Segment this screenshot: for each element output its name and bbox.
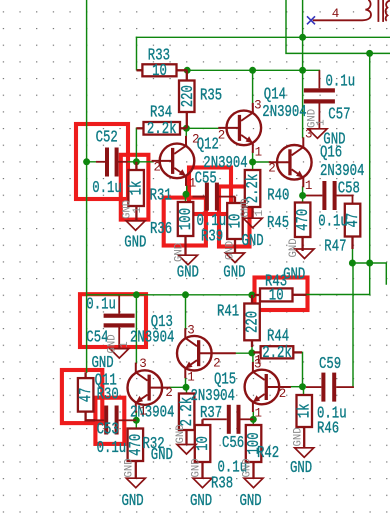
svg-text:470: 470	[294, 209, 313, 231]
resistor R43 (10, horizontal)	[254, 288, 307, 301]
wire R34 to Q14 base	[186, 127, 218, 129]
ground R39	[226, 253, 245, 263]
svg-text:470: 470	[127, 434, 146, 456]
svg-text:GND: GND	[323, 130, 345, 149]
svg-text:GND: GND	[122, 492, 144, 511]
svg-text:R38: R38	[211, 475, 233, 494]
svg-text:R30: R30	[97, 386, 119, 405]
resistor R41 (220, vertical)	[244, 295, 259, 347]
svg-text:C58: C58	[338, 180, 360, 199]
svg-text:2: 2	[268, 162, 276, 176]
junction R47 bottom	[349, 260, 356, 267]
ground C57	[308, 129, 327, 139]
junction Q14 collector	[249, 67, 256, 74]
capacitor C52	[96, 148, 128, 177]
svg-text:0.1u: 0.1u	[326, 73, 356, 92]
svg-text:GND: GND	[240, 492, 262, 511]
svg-text:C59: C59	[319, 355, 341, 374]
svg-text:220: 220	[179, 85, 198, 107]
svg-text:1k: 1k	[296, 404, 315, 419]
svg-text:C53: C53	[97, 421, 119, 440]
capacitor C53	[93, 406, 136, 435]
highlight box around R31	[121, 155, 149, 220]
capacitor C57	[304, 70, 335, 129]
ground R31	[126, 221, 145, 231]
svg-text:100: 100	[245, 432, 264, 454]
svg-text:220: 220	[244, 311, 263, 333]
no-connect flag on pin 4	[307, 16, 315, 24]
capacitor C58	[306, 181, 353, 210]
svg-text:2: 2	[165, 386, 173, 400]
svg-text:GND: GND	[225, 240, 237, 260]
svg-text:2: 2	[192, 133, 200, 147]
wire C52 to node	[118, 161, 153, 163]
svg-text:1: 1	[255, 406, 263, 420]
svg-text:GND: GND	[288, 238, 300, 258]
junction top bus	[299, 34, 306, 41]
svg-text:0.1u: 0.1u	[97, 439, 127, 458]
transistor Q11 (mirrored)	[128, 363, 171, 413]
svg-text:GND: GND	[174, 242, 186, 262]
capacitor C56	[203, 405, 254, 434]
svg-text:1: 1	[132, 207, 144, 214]
resistor R44 (2.2k, horizontal)	[254, 346, 303, 358]
svg-text:1: 1	[189, 177, 197, 191]
wire node to Q11 collector	[135, 295, 137, 363]
svg-text:2: 2	[218, 129, 226, 143]
wire Q11 base	[170, 386, 187, 388]
highlight box around R30	[62, 370, 102, 423]
svg-text:2N3904: 2N3904	[320, 162, 364, 181]
junction Q16 emitter	[299, 192, 306, 199]
wire from top at x=302.6	[302, 0, 304, 138]
junction Q13 collector	[182, 291, 189, 298]
capacitor C59	[306, 373, 354, 402]
svg-text:R45: R45	[267, 214, 289, 233]
ground R32	[126, 478, 145, 488]
svg-text:GND: GND	[191, 458, 203, 478]
resistor R34 (2.2k, horizontal)	[136, 122, 186, 135]
resistor R32 (470, vertical)	[128, 429, 144, 479]
svg-text:10: 10	[152, 62, 167, 81]
wire node to R34	[135, 128, 137, 162]
wire Q12 collector link	[185, 128, 187, 137]
resistor R30 (47, vertical)	[78, 372, 95, 420]
wire collector bus y=70.3	[187, 69, 319, 71]
svg-text:C57: C57	[328, 106, 350, 125]
wire y=263 right	[352, 263, 386, 284]
wire Q14 collector	[252, 70, 254, 106]
capacitor C55	[193, 183, 236, 211]
resistor R38 (10, vertical)	[195, 419, 211, 478]
resistor R36 (100, vertical)	[178, 202, 194, 255]
svg-text:GND: GND	[293, 427, 305, 447]
highlight box around R43	[255, 278, 308, 311]
wire to R43 right	[307, 294, 370, 296]
resistor R39 (10, vertical)	[227, 197, 243, 253]
svg-text:1: 1	[139, 405, 147, 419]
svg-text:2N3904: 2N3904	[130, 329, 174, 348]
svg-text:10: 10	[269, 286, 284, 305]
junction Q15 emitter	[250, 416, 257, 423]
wire Q11 emitter	[135, 412, 137, 429]
svg-text:1: 1	[255, 145, 263, 159]
transistor Q14	[218, 103, 261, 153]
svg-text:2N3904: 2N3904	[130, 404, 174, 423]
wire Q12 emitter node	[186, 186, 188, 195]
svg-text:47: 47	[77, 388, 96, 403]
svg-text:R47: R47	[324, 238, 346, 257]
svg-text:3: 3	[254, 99, 262, 113]
ground C54	[110, 349, 129, 359]
junction C54 top node	[133, 291, 140, 298]
pin 4 of transformer	[313, 19, 362, 21]
svg-text:2.2k: 2.2k	[262, 344, 292, 363]
junction C57 tap	[299, 67, 306, 74]
wire R33 feedback loop	[137, 37, 144, 70]
transistor Q12	[152, 136, 195, 186]
svg-text:R39: R39	[201, 228, 223, 247]
svg-text:C56: C56	[222, 434, 244, 453]
wire from top at x=286	[286, 0, 390, 53]
svg-text:R40: R40	[267, 187, 289, 206]
wire top bus y=37	[137, 36, 390, 38]
svg-text:4: 4	[332, 7, 340, 21]
svg-text:C52: C52	[96, 129, 118, 148]
wire C59 right riser	[352, 263, 354, 387]
svg-text:3: 3	[139, 357, 147, 371]
svg-text:GND: GND	[151, 446, 173, 465]
svg-text:1: 1	[254, 354, 262, 368]
svg-text:1: 1	[119, 341, 131, 348]
resistor R35 (220, vertical)	[179, 70, 195, 128]
junction Q13 emitter	[183, 384, 190, 391]
svg-text:C55: C55	[195, 170, 217, 189]
svg-text:3: 3	[305, 128, 313, 142]
highlight box around R39	[219, 187, 250, 247]
wire R44 right riser	[295, 352, 303, 386]
svg-text:Q14: Q14	[264, 86, 286, 105]
svg-text:R35: R35	[200, 87, 222, 106]
junction C52 left	[83, 158, 90, 165]
svg-text:GND: GND	[223, 264, 245, 283]
wire input rail left	[86, 0, 88, 372]
svg-text:GND: GND	[124, 458, 136, 478]
svg-text:2: 2	[279, 387, 287, 401]
junction R41 top	[248, 292, 255, 299]
highlight box around C55	[189, 168, 231, 215]
ground R36	[179, 255, 198, 265]
wire Q13 emitter node	[185, 378, 187, 387]
svg-text:2: 2	[213, 357, 221, 371]
resistor R47 (47, vertical)	[345, 204, 361, 249]
highlight box around C53	[95, 398, 124, 444]
highlight box around C54	[80, 294, 146, 347]
svg-text:1: 1	[254, 210, 266, 217]
wire R41 bottom	[251, 346, 253, 353]
junction right rail top	[366, 50, 373, 57]
highlight box around C52	[76, 124, 128, 199]
svg-text:R37: R37	[200, 404, 222, 423]
ground R38	[193, 478, 212, 488]
wire Q15 emitter	[252, 412, 254, 426]
junction Q12 emitter	[183, 191, 190, 198]
resistor R42 (100, vertical)	[246, 425, 261, 478]
svg-text:R36: R36	[150, 220, 172, 239]
svg-text:47: 47	[344, 213, 363, 228]
junction R41 bottom	[248, 349, 255, 356]
svg-text:1k: 1k	[128, 181, 147, 196]
ground R46	[295, 448, 314, 458]
wire R36 top	[185, 195, 187, 203]
junction R33 right	[184, 67, 191, 74]
svg-text:GND: GND	[240, 198, 252, 218]
resistor 2.2k bottom leg (vertical)	[179, 394, 195, 445]
wire Q15 collector	[252, 353, 254, 364]
svg-text:R31: R31	[150, 187, 172, 206]
svg-text:GND: GND	[290, 459, 312, 478]
ground 2.2k bottom leg	[177, 445, 196, 455]
svg-text:0.1u: 0.1u	[92, 179, 122, 198]
wire 2.2k bottom leg	[186, 387, 188, 393]
resistor 2.2k top leg (vertical)	[245, 170, 260, 219]
transistor Q16	[269, 137, 312, 187]
junction right rail y263	[366, 260, 373, 267]
svg-text:GND: GND	[177, 264, 199, 283]
svg-text:1: 1	[305, 179, 313, 193]
svg-text:1: 1	[316, 119, 328, 126]
junction Q11 emitter	[133, 417, 140, 424]
wire Q13 base to node	[236, 352, 252, 354]
junction Q14 emitter	[249, 159, 256, 166]
resistor R33 (10, horizontal)	[137, 64, 188, 76]
svg-text:C54: C54	[86, 329, 108, 348]
svg-text:GND: GND	[107, 334, 119, 354]
svg-text:Q12: Q12	[197, 136, 219, 155]
svg-text:GND: GND	[124, 234, 146, 253]
wire right rail x=369.7	[369, 53, 371, 294]
capacitor C54	[104, 296, 135, 349]
svg-text:GND: GND	[283, 266, 305, 285]
resistor R46 (1k, vertical)	[297, 395, 313, 448]
wire Q15 base	[291, 386, 303, 388]
wire bottom rail y=294.8	[87, 294, 256, 296]
svg-text:1: 1	[187, 371, 195, 385]
ground R42	[244, 478, 263, 488]
resistor R31 (1k, vertical)	[128, 162, 144, 221]
ground R45	[295, 249, 314, 259]
svg-text:0.1u: 0.1u	[86, 296, 116, 315]
svg-text:2.2k: 2.2k	[147, 120, 177, 139]
junction C52 right node	[133, 158, 140, 165]
svg-text:100: 100	[177, 208, 196, 230]
svg-text:2N3904: 2N3904	[262, 103, 306, 122]
transistor Q13 (mirrored)	[177, 328, 236, 378]
svg-text:GND: GND	[242, 232, 264, 251]
svg-text:10: 10	[194, 436, 213, 451]
resistor R45 (470, vertical)	[295, 203, 311, 252]
highlight box around R36	[164, 198, 206, 246]
svg-text:GND: GND	[190, 492, 212, 511]
ground 2.2k top leg	[243, 218, 262, 228]
wire Q13 collector	[185, 295, 187, 329]
wire C52 row	[87, 161, 106, 163]
junction Q15 base node	[299, 383, 306, 390]
svg-text:2: 2	[154, 161, 162, 175]
wire Q16 emitter	[302, 187, 304, 203]
transistor Q15 (mirrored)	[245, 362, 291, 412]
transformer T1 (cropped, top right)	[313, 0, 390, 22]
wire R46 top	[303, 387, 305, 395]
svg-text:GND: GND	[92, 354, 114, 373]
wire to Q16 base	[253, 161, 270, 163]
svg-text:GND: GND	[242, 458, 254, 478]
svg-text:3: 3	[187, 324, 195, 338]
svg-text:GND: GND	[175, 424, 187, 444]
wire Q14 emitter row	[252, 152, 254, 170]
svg-text:R41: R41	[217, 303, 239, 322]
junction R34 right	[183, 125, 190, 132]
svg-text:R46: R46	[317, 420, 339, 439]
wire R47 bottom	[352, 248, 354, 263]
